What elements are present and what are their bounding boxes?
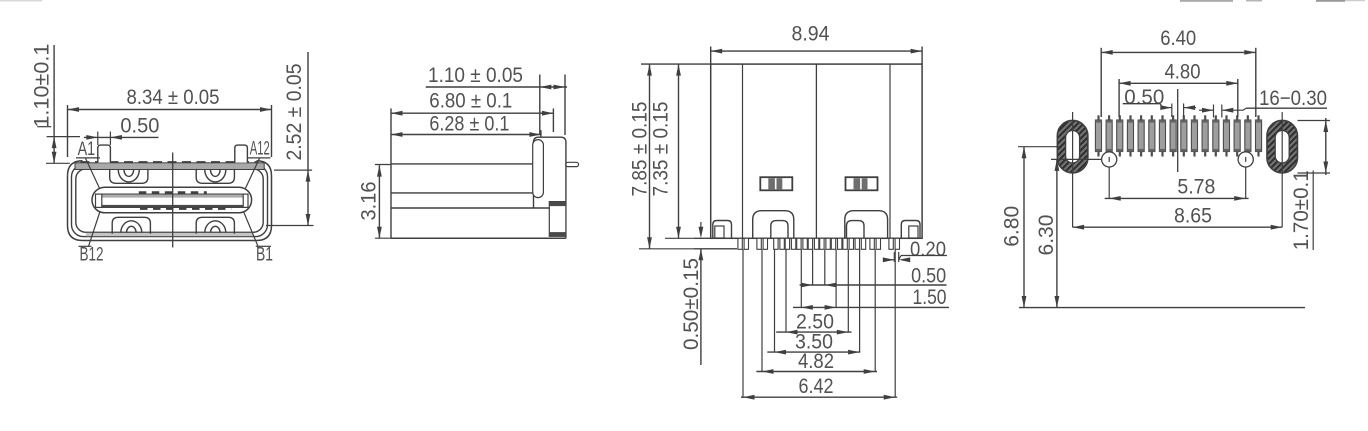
svg-text:8.65: 8.65 — [1174, 205, 1212, 228]
svg-text:7.35 ± 0.15: 7.35 ± 0.15 — [650, 102, 673, 197]
svg-text:1.10 ± 0.05: 1.10 ± 0.05 — [428, 64, 523, 87]
svg-text:6.42: 6.42 — [799, 375, 834, 398]
svg-text:0.50±0.15: 0.50±0.15 — [680, 258, 703, 350]
svg-text:2.52 ± 0.05: 2.52 ± 0.05 — [283, 64, 306, 161]
svg-text:0.20: 0.20 — [910, 238, 946, 261]
svg-text:0.50: 0.50 — [911, 264, 946, 287]
svg-text:6.28 ± 0.1: 6.28 ± 0.1 — [429, 113, 509, 136]
svg-text:16−0.30: 16−0.30 — [1259, 87, 1327, 110]
svg-text:3.16: 3.16 — [357, 182, 380, 221]
svg-text:1.50: 1.50 — [913, 286, 947, 309]
svg-text:6.30: 6.30 — [1035, 215, 1058, 256]
svg-text:5.78: 5.78 — [1177, 176, 1215, 199]
svg-text:6.80 ± 0.1: 6.80 ± 0.1 — [429, 90, 512, 113]
svg-text:8.94: 8.94 — [792, 22, 830, 45]
svg-text:1.70±0.1: 1.70±0.1 — [1290, 170, 1313, 250]
svg-text:4.80: 4.80 — [1165, 61, 1201, 84]
svg-text:0.50: 0.50 — [1124, 86, 1164, 109]
svg-text:7.85 ± 0.15: 7.85 ± 0.15 — [629, 102, 652, 197]
svg-text:8.34 ± 0.05: 8.34 ± 0.05 — [127, 86, 220, 109]
svg-text:B12: B12 — [80, 245, 104, 266]
svg-text:4.82: 4.82 — [798, 350, 834, 373]
svg-text:6.80: 6.80 — [1000, 206, 1023, 247]
svg-text:B1: B1 — [256, 245, 273, 266]
svg-text:6.40: 6.40 — [1160, 27, 1196, 50]
svg-text:A1: A1 — [78, 139, 96, 160]
svg-text:0.50: 0.50 — [120, 114, 159, 137]
svg-text:1.10±0.1: 1.10±0.1 — [31, 44, 54, 128]
svg-text:A12: A12 — [250, 138, 270, 159]
